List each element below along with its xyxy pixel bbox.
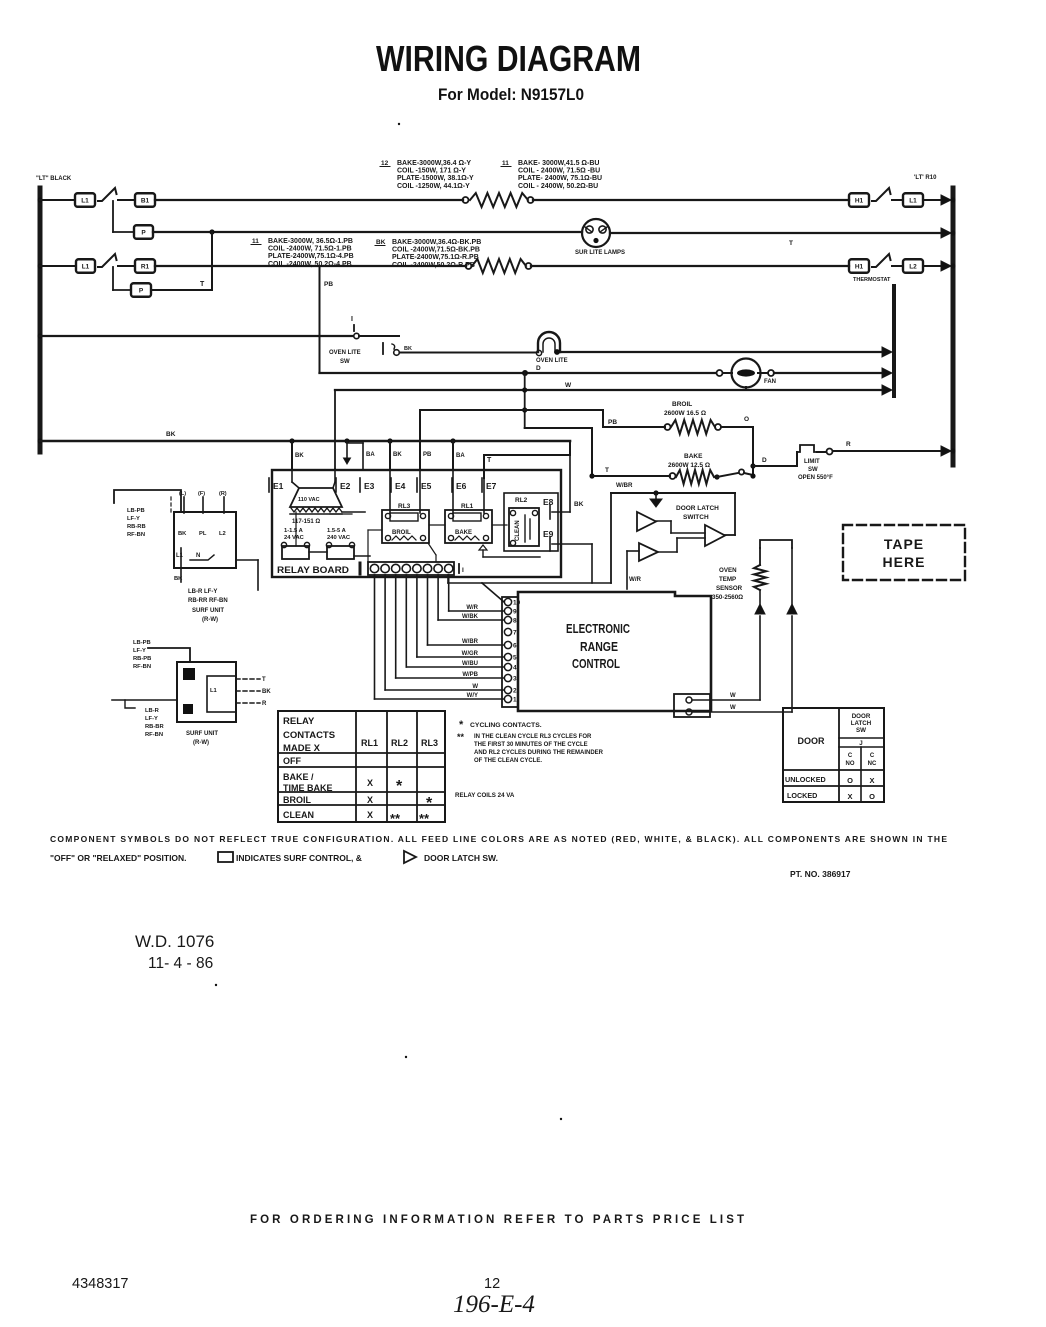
svg-text:DOOR LATCH: DOOR LATCH [676, 505, 719, 512]
svg-text:ELECTRONIC: ELECTRONIC [566, 621, 630, 636]
svg-text:X: X [367, 795, 373, 805]
svg-text:BAKE: BAKE [455, 530, 472, 536]
svg-text:5: 5 [513, 655, 517, 662]
svg-text:RELAY COILS 24 VA: RELAY COILS 24 VA [455, 792, 515, 799]
svg-text:BAKE-3000W,36.4Ω-BK.PB: BAKE-3000W,36.4Ω-BK.PB [392, 239, 481, 246]
svg-text:RL3: RL3 [398, 503, 411, 510]
svg-text:PL: PL [199, 531, 207, 537]
svg-text:L2: L2 [219, 531, 226, 537]
svg-text:W: W [730, 693, 736, 699]
svg-text:P: P [139, 287, 144, 294]
svg-text:RELAY BOARD: RELAY BOARD [277, 565, 349, 576]
svg-text:X: X [367, 810, 373, 820]
svg-text:RB-RB: RB-RB [127, 524, 146, 530]
svg-text:FOR ORDERING INFORMATION REFER: FOR ORDERING INFORMATION REFER TO PARTS … [250, 1214, 744, 1226]
svg-text:196-E-4: 196-E-4 [453, 1291, 535, 1318]
svg-text:COIL -1250W, 44.1Ω-Y: COIL -1250W, 44.1Ω-Y [397, 183, 470, 190]
svg-text:E2: E2 [340, 481, 351, 491]
svg-text:*: * [459, 719, 464, 731]
svg-text:For Model: N9157L0: For Model: N9157L0 [438, 86, 584, 104]
svg-text:BAKE: BAKE [684, 453, 703, 460]
svg-text:*: * [396, 778, 403, 795]
svg-text:RF-BN: RF-BN [145, 732, 163, 738]
svg-text:LB-PB: LB-PB [133, 640, 151, 646]
svg-text:SW: SW [340, 359, 350, 365]
svg-text:W/BU: W/BU [462, 661, 478, 667]
svg-text:(R-W): (R-W) [202, 617, 218, 623]
svg-text:BROIL: BROIL [283, 795, 312, 805]
svg-text:COMPONENT SYMBOLS DO NOT R: COMPONENT SYMBOLS DO NOT REFLECT TRUE CO… [50, 834, 947, 844]
svg-text:L1: L1 [82, 263, 90, 270]
svg-text:BK: BK [574, 501, 584, 508]
svg-text:OVEN LITE: OVEN LITE [536, 358, 568, 364]
svg-text:C: C [848, 753, 853, 759]
svg-text:OFF: OFF [283, 756, 301, 766]
svg-text:BROIL: BROIL [392, 530, 411, 536]
svg-text:BA: BA [456, 453, 465, 459]
svg-text:BK: BK [178, 531, 187, 537]
svg-text:MADE X: MADE X [283, 743, 321, 754]
svg-text:SW: SW [808, 467, 818, 473]
svg-text:BK: BK [174, 576, 183, 582]
svg-text:OF THE CLEAN CYCLE.: OF THE CLEAN CYCLE. [474, 758, 542, 764]
svg-text:**: ** [457, 732, 465, 742]
svg-text:O: O [744, 416, 749, 423]
svg-text:COIL - 2400W, 50.2Ω-BU: COIL - 2400W, 50.2Ω-BU [518, 183, 598, 190]
svg-text:1.5-5 A: 1.5-5 A [327, 528, 347, 534]
svg-text:TIME BAKE: TIME BAKE [283, 783, 333, 793]
svg-text:9: 9 [513, 609, 517, 616]
svg-text:O: O [869, 792, 875, 801]
svg-text:RL2: RL2 [515, 497, 528, 504]
svg-text:HERE: HERE [883, 554, 926, 570]
svg-text:E4: E4 [395, 481, 406, 491]
svg-text:E8: E8 [543, 497, 554, 507]
svg-text:TEMP: TEMP [719, 576, 736, 583]
svg-text:BAKE-3000W,36.4 Ω-Y: BAKE-3000W,36.4 Ω-Y [397, 160, 471, 167]
svg-text:CONTACTS: CONTACTS [283, 730, 335, 741]
svg-text:RL3: RL3 [421, 738, 438, 748]
svg-text:INDICATES SURF CONTROL, &: INDICATES SURF CONTROL, & [236, 853, 362, 863]
svg-text:L1: L1 [210, 688, 218, 694]
svg-text:PLATE-2400W,75.1Ω-R.PB: PLATE-2400W,75.1Ω-R.PB [392, 254, 479, 261]
svg-text:"LT" BLACK: "LT" BLACK [36, 176, 72, 182]
svg-text:**: ** [390, 811, 401, 826]
svg-text:PT. NO. 386917: PT. NO. 386917 [790, 869, 851, 879]
svg-text:THE FIRST 30 MINUTES OF THE CY: THE FIRST 30 MINUTES OF THE CYCLE [474, 742, 588, 748]
svg-text:LATCH: LATCH [851, 720, 872, 727]
svg-text:W/BR: W/BR [616, 482, 633, 489]
svg-text:*: * [426, 795, 433, 812]
svg-text:E6: E6 [456, 481, 467, 491]
svg-text:3: 3 [513, 676, 517, 683]
svg-text:RF-BN: RF-BN [133, 664, 151, 670]
svg-text:RL1: RL1 [361, 738, 378, 748]
svg-text:COIL -2400W,71.5Ω-BK.PB: COIL -2400W,71.5Ω-BK.PB [392, 247, 480, 254]
svg-text:RB-PB: RB-PB [133, 656, 151, 662]
svg-text:(R-W): (R-W) [193, 740, 209, 746]
svg-text:T: T [487, 457, 492, 464]
svg-text:350-2560Ω: 350-2560Ω [712, 594, 743, 601]
svg-text:E5: E5 [421, 481, 432, 491]
svg-text:(L): (L) [179, 491, 186, 497]
svg-text:H1: H1 [855, 263, 864, 270]
svg-text:(R): (R) [219, 491, 227, 497]
svg-text:UNLOCKED: UNLOCKED [785, 775, 826, 784]
svg-text:PB: PB [608, 419, 617, 426]
svg-text:7: 7 [513, 630, 517, 637]
svg-text:DOOR: DOOR [798, 736, 826, 746]
svg-text:FAN: FAN [764, 379, 776, 385]
svg-text:DOOR: DOOR [852, 713, 871, 720]
svg-text:COIL - 2400W, 71.5Ω -BU: COIL - 2400W, 71.5Ω -BU [518, 168, 600, 175]
svg-text:LB-R LF-Y: LB-R LF-Y [188, 589, 217, 595]
svg-text:I: I [351, 316, 353, 323]
svg-text:W/PB: W/PB [462, 672, 478, 678]
svg-text:LF-Y: LF-Y [127, 516, 140, 522]
svg-text:SW: SW [856, 727, 866, 734]
svg-text:RB-RR RF-BN: RB-RR RF-BN [188, 598, 228, 604]
svg-text:W/BK: W/BK [462, 614, 479, 620]
svg-text:SENSOR: SENSOR [716, 585, 743, 592]
svg-text:12: 12 [381, 160, 389, 167]
svg-text:W/GR: W/GR [462, 651, 479, 657]
svg-text:6: 6 [513, 643, 517, 650]
svg-text:OPEN 550°F: OPEN 550°F [798, 475, 833, 481]
svg-text:RELAY: RELAY [283, 716, 315, 727]
svg-text:12: 12 [484, 1276, 500, 1292]
svg-text:240 VAC: 240 VAC [327, 535, 351, 541]
svg-text:DOOR LATCH SW.: DOOR LATCH SW. [424, 853, 498, 863]
svg-text:L2: L2 [909, 263, 917, 270]
svg-text:X: X [367, 778, 373, 788]
svg-text:BK: BK [262, 689, 271, 695]
svg-text:1: 1 [513, 697, 517, 704]
svg-text:T: T [605, 467, 609, 474]
svg-text:L1: L1 [909, 197, 917, 204]
svg-text:PB: PB [423, 452, 432, 458]
svg-text:CONTROL: CONTROL [572, 656, 620, 671]
svg-text:SWITCH: SWITCH [683, 514, 709, 521]
svg-text:IN THE CLEAN CYCLE RL3 CYCLES: IN THE CLEAN CYCLE RL3 CYCLES FOR [474, 734, 592, 740]
svg-text:T: T [200, 281, 205, 288]
svg-text:RB-BR: RB-BR [145, 724, 164, 730]
svg-text:2600W 12.5 Ω: 2600W 12.5 Ω [668, 462, 710, 469]
svg-text:PLATE- 2400W, 75.1Ω-BU: PLATE- 2400W, 75.1Ω-BU [518, 175, 602, 182]
svg-text:PB: PB [324, 281, 333, 288]
svg-text:W/R: W/R [466, 605, 478, 611]
svg-text:WIRING DIAGRAM: WIRING DIAGRAM [376, 38, 641, 79]
svg-text:W.D. 1076: W.D. 1076 [135, 932, 214, 951]
svg-text:BROIL: BROIL [672, 401, 692, 408]
svg-text:SUR LITE LAMPS: SUR LITE LAMPS [575, 250, 625, 256]
svg-text:R: R [846, 441, 851, 448]
svg-text:CYCLING CONTACTS.: CYCLING CONTACTS. [470, 722, 542, 729]
svg-text:W: W [730, 705, 736, 711]
svg-text:T: T [789, 240, 793, 247]
svg-text:PLATE-1500W, 38.1Ω-Y: PLATE-1500W, 38.1Ω-Y [397, 175, 474, 182]
svg-text:B1: B1 [141, 197, 150, 204]
svg-text:RL2: RL2 [391, 738, 408, 748]
svg-text:NC: NC [868, 761, 877, 767]
svg-text:2: 2 [513, 688, 517, 695]
svg-text:11: 11 [252, 238, 259, 245]
svg-text:RF-BN: RF-BN [127, 532, 145, 538]
svg-text:NO: NO [846, 761, 855, 767]
svg-text:O: O [847, 776, 853, 785]
svg-text:N: N [196, 553, 200, 559]
svg-text:LF-Y: LF-Y [145, 716, 158, 722]
svg-text:BK: BK [393, 452, 402, 458]
svg-text:E9: E9 [543, 529, 554, 539]
svg-text:COIL -2400W, 50.2Ω-4.PB: COIL -2400W, 50.2Ω-4.PB [268, 261, 352, 268]
svg-text:BK: BK [404, 346, 412, 352]
svg-text:H1: H1 [855, 197, 864, 204]
svg-text:I: I [462, 567, 464, 574]
svg-text:2600W 16.5 Ω: 2600W 16.5 Ω [664, 410, 706, 417]
svg-text:110 VAC: 110 VAC [298, 497, 320, 503]
svg-text:SURF UNIT: SURF UNIT [186, 731, 218, 737]
svg-text:CLEAN: CLEAN [515, 520, 521, 541]
svg-text:COIL -2400W,50.2Ω-R.PB: COIL -2400W,50.2Ω-R.PB [392, 262, 475, 269]
svg-text:W/BR: W/BR [462, 639, 479, 645]
svg-text:W/Y: W/Y [467, 693, 478, 699]
svg-text:LOCKED: LOCKED [787, 791, 817, 800]
svg-text:LF-Y: LF-Y [133, 648, 146, 654]
svg-text:"OFF" OR "RELAXED" POSITION.: "OFF" OR "RELAXED" POSITION. [50, 853, 187, 863]
svg-text:RL1: RL1 [461, 503, 474, 510]
svg-text:LIMIT: LIMIT [804, 459, 820, 465]
svg-text:D: D [762, 457, 767, 464]
svg-text:11- 4 - 86: 11- 4 - 86 [148, 955, 213, 972]
svg-text:LB-R: LB-R [145, 708, 160, 714]
svg-text:BA: BA [366, 452, 375, 458]
svg-text:BK: BK [295, 453, 304, 459]
svg-text:L1: L1 [176, 553, 184, 559]
svg-text:11: 11 [502, 160, 509, 167]
svg-text:4348317: 4348317 [72, 1276, 128, 1292]
svg-text:T: T [262, 677, 266, 683]
svg-text:W: W [565, 382, 572, 389]
svg-text:24 VAC: 24 VAC [284, 535, 305, 541]
svg-text:E1: E1 [273, 481, 284, 491]
svg-text:BK: BK [166, 431, 176, 438]
svg-text:1-1.5 A: 1-1.5 A [284, 528, 304, 534]
svg-text:D: D [536, 365, 541, 372]
svg-text:E3: E3 [364, 481, 375, 491]
svg-text:C: C [870, 753, 875, 759]
svg-text:OVEN LITE: OVEN LITE [329, 350, 361, 356]
svg-text:THERMOSTAT: THERMOSTAT [853, 277, 891, 283]
svg-text:COIL -150W, 171 Ω-Y: COIL -150W, 171 Ω-Y [397, 168, 466, 175]
svg-text:AND RL2 CYCLES DURING THE REMA: AND RL2 CYCLES DURING THE REMAINDER [474, 750, 604, 756]
svg-text:W/R: W/R [629, 576, 642, 583]
svg-text:CLEAN: CLEAN [283, 810, 314, 820]
svg-text:P: P [141, 229, 146, 236]
svg-text:R1: R1 [141, 263, 150, 270]
svg-text:**: ** [419, 811, 430, 826]
svg-text:W: W [472, 684, 478, 690]
svg-text:RANGE: RANGE [580, 639, 618, 654]
svg-text:BAKE /: BAKE / [283, 772, 314, 782]
svg-text:'LT' R10: 'LT' R10 [914, 175, 937, 181]
svg-text:J: J [859, 740, 863, 747]
svg-text:X: X [847, 792, 852, 801]
svg-text:R: R [262, 701, 267, 707]
svg-text:COIL -2400W, 71.5Ω-1.PB: COIL -2400W, 71.5Ω-1.PB [268, 246, 352, 253]
svg-text:TAPE: TAPE [884, 536, 924, 552]
svg-text:PLATE-2400W,75.1Ω-4.PB: PLATE-2400W,75.1Ω-4.PB [268, 253, 354, 260]
svg-text:4: 4 [513, 665, 517, 672]
svg-text:BK: BK [376, 239, 386, 246]
svg-text:8: 8 [513, 618, 517, 625]
svg-text:L1: L1 [81, 197, 89, 204]
svg-text:E7: E7 [486, 481, 497, 491]
svg-text:X: X [869, 776, 874, 785]
svg-text:SURF UNIT: SURF UNIT [192, 608, 224, 614]
svg-text:(F): (F) [198, 491, 205, 497]
svg-text:BAKE- 3000W,41.5 Ω-BU: BAKE- 3000W,41.5 Ω-BU [518, 160, 599, 167]
svg-text:OVEN: OVEN [719, 567, 737, 574]
svg-text:LB-PB: LB-PB [127, 508, 145, 514]
svg-text:BAKE-3000W, 36.5Ω-1.PB: BAKE-3000W, 36.5Ω-1.PB [268, 238, 353, 245]
